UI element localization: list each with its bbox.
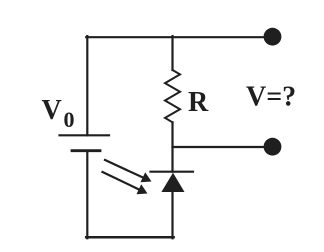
- svg-text:V=?: V=?: [246, 82, 296, 113]
- photodiode D triangle: [161, 173, 184, 192]
- light arrow 2 head: [137, 184, 148, 194]
- wire middle vertical upper: [171, 36, 173, 70]
- resistor R zigzag: [165, 70, 180, 122]
- wire diode anode vertical: [171, 192, 173, 239]
- node terminal top: [264, 28, 282, 46]
- svg-text:0: 0: [64, 107, 75, 132]
- battery V0 plate long: [60, 134, 110, 136]
- svg-text:V: V: [42, 95, 62, 126]
- svg-text:R: R: [188, 87, 209, 118]
- wire bottom horizontal: [86, 236, 173, 239]
- wire left vertical lower: [86, 151, 88, 239]
- light arrow 1 shaft: [104, 160, 144, 178]
- battery V0 plate short: [72, 149, 100, 152]
- wire left vertical upper: [86, 36, 88, 135]
- photodiode cathode bar: [151, 171, 194, 173]
- light arrow 2 shaft: [102, 172, 140, 190]
- node terminal bottom: [264, 138, 282, 156]
- light arrow 1 head: [141, 172, 152, 182]
- wire resistor to cathode: [171, 122, 173, 171]
- wire middle-right horizontal: [173, 146, 267, 148]
- wire top horizontal: [86, 36, 266, 38]
